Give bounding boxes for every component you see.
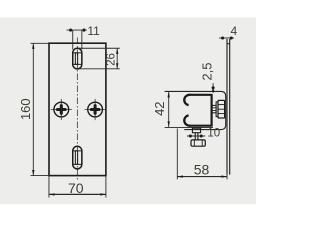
dim 70 (48, 176, 50, 198)
slot bottom (stadium) (73, 146, 82, 169)
horizontal bolt: washer (216, 102, 218, 117)
slot bottom center bar (75, 151, 77, 165)
dim 4 (219, 37, 234, 39)
slot top (stadium) (73, 48, 82, 69)
plate outline (49, 43, 106, 175)
upper hook (184, 95, 190, 105)
lower hook (184, 115, 190, 125)
horizontal bolt: shank (212, 105, 217, 112)
dim 2,5 leader (212, 83, 214, 93)
C-channel thick walls (190, 94, 212, 127)
hole left circle (51, 99, 72, 120)
vertical rail strip (226, 39, 228, 175)
dim 11 (67, 29, 87, 31)
hole right circle (85, 99, 106, 120)
svg-text:26: 26 (106, 53, 118, 66)
dim 10 (187, 135, 205, 137)
bottom bolt shank (194, 133, 196, 140)
bottom bolt head (191, 140, 205, 146)
svg-text:42: 42 (152, 101, 167, 115)
svg-text:4: 4 (231, 24, 238, 38)
channel bottom thin line / 42 bottom extension (165, 126, 213, 128)
dim 160 (31, 43, 49, 175)
bottom bolt washer (192, 128, 200, 133)
slot top chords (73, 52, 82, 54)
dim 42 (168, 91, 170, 127)
slot bottom chords (73, 150, 82, 152)
clamp thin outline (165, 91, 226, 129)
dim 58 (176, 129, 178, 180)
centerline vertical (plate axis) (76, 38, 78, 182)
horizontal bolt: head (218, 100, 225, 118)
dim 26 (78, 47, 120, 49)
svg-text:2,5: 2,5 (200, 63, 215, 81)
slot top center bar (75, 53, 77, 65)
svg-text:11: 11 (87, 24, 100, 38)
svg-text:58: 58 (194, 161, 210, 177)
svg-text:10: 10 (207, 128, 220, 140)
svg-text:70: 70 (68, 180, 84, 196)
svg-text:160: 160 (18, 98, 33, 120)
background drawing area (0, 0, 256, 214)
